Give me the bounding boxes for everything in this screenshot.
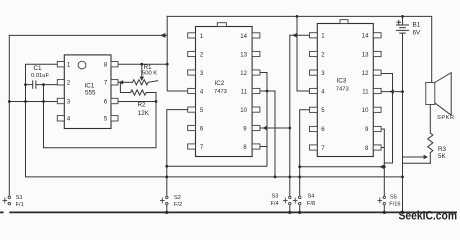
svg-text:F/2: F/2 bbox=[174, 202, 182, 208]
svg-text:S1: S1 bbox=[16, 195, 23, 201]
svg-text:S5: S5 bbox=[390, 194, 397, 200]
svg-text:S2: S2 bbox=[174, 195, 181, 201]
svg-text:F/16: F/16 bbox=[389, 202, 400, 208]
svg-text:R3: R3 bbox=[438, 146, 447, 153]
svg-text:10: 10 bbox=[362, 108, 369, 114]
svg-text:13: 13 bbox=[240, 52, 247, 58]
svg-text:10: 10 bbox=[240, 108, 247, 114]
svg-text:500 K: 500 K bbox=[142, 70, 157, 76]
svg-text:14: 14 bbox=[362, 34, 369, 40]
svg-text:12: 12 bbox=[240, 71, 247, 77]
svg-text:5K: 5K bbox=[438, 153, 447, 160]
svg-text:F/8: F/8 bbox=[307, 201, 315, 207]
svg-text:0.01uF: 0.01uF bbox=[31, 73, 50, 79]
svg-text:S4: S4 bbox=[308, 194, 315, 200]
svg-text:S3: S3 bbox=[272, 194, 279, 200]
svg-text:11: 11 bbox=[241, 89, 248, 95]
svg-text:12: 12 bbox=[362, 71, 369, 77]
svg-text:C1: C1 bbox=[34, 65, 43, 72]
svg-text:7473: 7473 bbox=[336, 87, 349, 93]
svg-text:B1: B1 bbox=[413, 22, 421, 29]
svg-text:11: 11 bbox=[362, 89, 369, 95]
svg-text:R2: R2 bbox=[138, 101, 147, 108]
svg-text:6V: 6V bbox=[413, 29, 422, 36]
svg-text:12K: 12K bbox=[138, 110, 150, 117]
svg-text:SPKR: SPKR bbox=[437, 115, 455, 121]
svg-text:F/1: F/1 bbox=[16, 202, 24, 208]
svg-text:555: 555 bbox=[85, 90, 96, 97]
svg-text:IC1: IC1 bbox=[85, 82, 95, 89]
svg-text:14: 14 bbox=[240, 34, 247, 40]
svg-text:13: 13 bbox=[362, 52, 369, 58]
svg-text:SeekIC.com: SeekIC.com bbox=[399, 209, 458, 223]
svg-text:IC2: IC2 bbox=[215, 80, 225, 87]
svg-text:7473: 7473 bbox=[214, 89, 227, 95]
svg-text:IC3: IC3 bbox=[337, 78, 347, 85]
svg-text:F/4: F/4 bbox=[271, 201, 279, 207]
